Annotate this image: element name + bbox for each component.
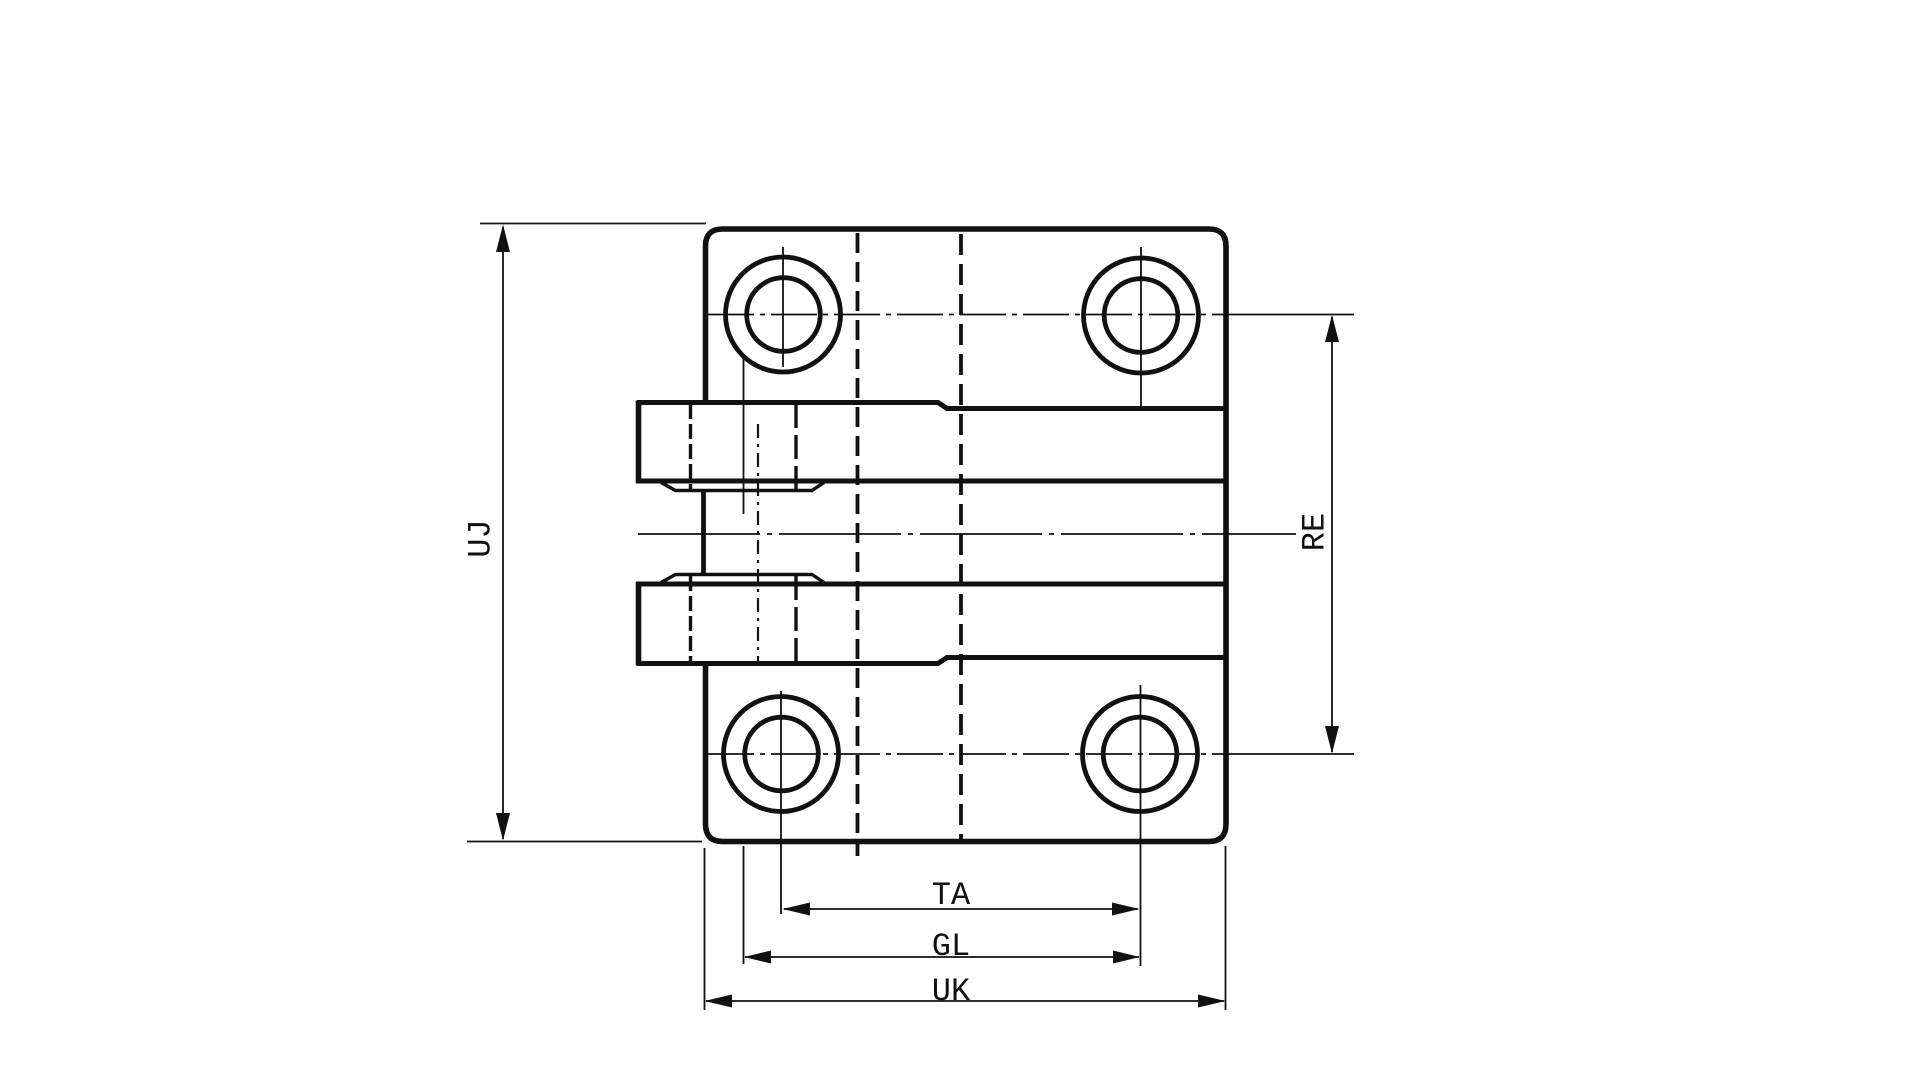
svg-text:UK: UK — [932, 973, 971, 1010]
lower hinge leaf bottom edge with jog — [637, 658, 1226, 664]
RE dimension line — [1331, 317, 1333, 752]
top-right hole vertical centreline — [1140, 247, 1142, 407]
UK left arrowhead — [705, 995, 733, 1008]
hidden bore edge left in lower leaf — [689, 576, 692, 662]
GL right arrowhead — [1113, 951, 1140, 964]
hidden bore edge right in lower leaf — [794, 576, 797, 662]
bottom centreline extension to RE — [1240, 753, 1354, 755]
UK right arrowhead — [1198, 995, 1226, 1008]
hidden bore edge left in upper leaf — [689, 404, 692, 489]
hole bottom-right outer circle — [1083, 697, 1198, 812]
RE top arrowhead — [1325, 315, 1339, 342]
GL left arrowhead — [744, 951, 771, 964]
TA left arrowhead — [783, 903, 811, 916]
hole bottom-left inner circle — [745, 717, 819, 791]
top-left hole vertical centreline — [782, 247, 784, 367]
lower leaf lip (boss above tab) — [661, 575, 824, 583]
upper leaf lip (boss below tab) — [661, 483, 824, 491]
upper leaf left end edge — [636, 401, 642, 484]
UK right extension line — [1225, 846, 1227, 1010]
top holes horizontal centreline (dash-dot) — [708, 314, 1240, 316]
svg-text:UJ: UJ — [463, 519, 500, 557]
thin vertical reference line at tab — [743, 358, 745, 514]
GL dimension line — [745, 956, 1139, 958]
web segment of body left edge between the leaves — [701, 491, 706, 575]
hole top-right inner circle — [1104, 279, 1178, 353]
body outline (rounded rectangular block, left edge interrupted by hinge leaves) — [706, 229, 1227, 842]
upper hinge leaf top edge with jog — [637, 403, 1226, 409]
hole top-left outer circle — [726, 257, 841, 372]
svg-text:RE: RE — [1297, 513, 1334, 551]
UK dimension line — [706, 1000, 1224, 1002]
top centreline extension to RE — [1240, 314, 1354, 316]
middle horizontal centreline (dash-dot) — [638, 533, 1296, 535]
hole bottom-right inner circle — [1103, 717, 1177, 791]
upper hinge leaf bottom edge — [636, 479, 1226, 484]
hidden line (dashed) full height right — [959, 234, 963, 843]
UJ top arrowhead — [496, 225, 510, 253]
bottom-left hole vertical centreline + TA extension — [780, 691, 782, 914]
lower hinge leaf top edge — [636, 582, 1226, 587]
GL left extension line — [743, 846, 745, 964]
svg-text:TA: TA — [932, 877, 971, 914]
bottom-right hole vertical centreline + TA/GL extension — [1140, 685, 1142, 966]
hinge pin vertical centreline (dash-dot) — [757, 424, 759, 666]
svg-text:GL: GL — [932, 928, 970, 965]
TA right arrowhead — [1112, 903, 1140, 916]
UK left extension line — [704, 848, 706, 1010]
hole top-left inner circle — [747, 278, 821, 352]
hole bottom-left outer circle — [724, 697, 839, 812]
TA dimension line — [784, 908, 1138, 910]
hidden bore edge right in upper leaf — [794, 404, 797, 489]
UJ dimension line — [502, 227, 504, 839]
UJ bottom arrowhead — [496, 813, 510, 841]
hidden line (dashed) full height left — [856, 233, 860, 856]
hole top-right outer circle — [1084, 258, 1199, 373]
RE bottom arrowhead — [1325, 726, 1339, 754]
UJ top extension line — [480, 223, 706, 225]
lower leaf left end edge — [636, 582, 642, 666]
UJ bottom extension line — [467, 841, 702, 843]
bottom holes horizontal centreline (dash-dot) — [708, 753, 1240, 755]
